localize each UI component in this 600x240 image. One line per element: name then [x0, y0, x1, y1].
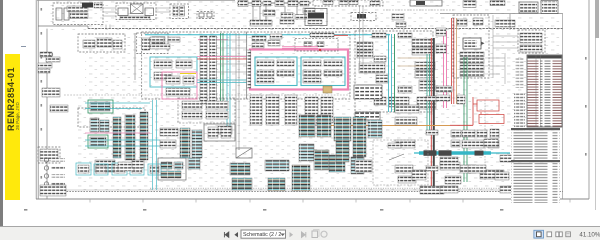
yellow wire: [180, 73, 196, 75]
fuses: [44, 158, 65, 194]
dark trunk cable: [433, 38, 435, 192]
bottom dotted line 2: [150, 187, 560, 189]
connector table small 2: [541, 1, 558, 14]
grid column numbers: [24, 209, 503, 211]
dashed box bottom right-center: [373, 140, 428, 185]
crossed box: [131, 4, 144, 14]
red box 2: [479, 115, 504, 124]
chain connector: [238, 1, 248, 7]
bottom dashed harness line: [47, 191, 563, 193]
component cluster right: [451, 140, 460, 147]
connector ladder pair: [268, 178, 285, 191]
next-page button (disabled): [290, 232, 294, 237]
indicator cluster colored: [158, 158, 186, 180]
connector ladder cascade: [317, 115, 331, 137]
small comps under bus: [150, 37, 164, 42]
chain connector: [300, 1, 309, 6]
A1 box: [355, 160, 372, 172]
short line left of bus: [38, 26, 88, 29]
red wire to ECM left: [197, 58, 250, 60]
status bar: [0, 226, 600, 240]
trunk labels: [426, 96, 438, 101]
terminal table column: [250, 95, 262, 125]
pink horizontal left cluster: [85, 132, 150, 134]
scrollbar thumb: [595, 0, 599, 38]
terminal table column: [305, 97, 318, 125]
component cluster right: [460, 165, 476, 173]
component cluster right: [457, 95, 465, 104]
connector ladder pair: [230, 163, 250, 175]
thick cyan band: [414, 150, 510, 156]
right mid small chips: [436, 86, 452, 92]
red connecting wires: [473, 104, 481, 115]
red box 1: [477, 100, 499, 111]
component cluster right: [500, 155, 514, 162]
dashed box pump: [518, 30, 545, 53]
pink wire to ECM left: [197, 56, 250, 58]
connector ladder cascade: [329, 155, 345, 172]
dashed box left-center: [78, 108, 145, 127]
small clusters top far right: [463, 1, 476, 8]
fine print noise overlay: [50, 1, 560, 30]
red wire above ECM: [322, 34, 348, 36]
barrel connector cluster: [372, 33, 386, 38]
connector ladder cascade: [314, 150, 329, 170]
refresh icon (disabled): [321, 231, 327, 237]
top harness chain: [237, 2, 311, 4]
box A clusters: [67, 6, 88, 12]
link wires between top boxes: [103, 8, 170, 16]
wire legend table: [527, 55, 562, 127]
ECM cyan box right: [301, 57, 345, 86]
green bordered box B: [88, 135, 108, 148]
dashed module box D: [197, 12, 214, 19]
first-page button: [224, 232, 228, 237]
bottom ruler line: [36, 198, 589, 200]
main ticked bus line: [88, 28, 563, 30]
component cluster right: [462, 140, 484, 148]
mid dashed container line: [64, 94, 350, 96]
component cluster right: [395, 140, 415, 148]
teal box component: [148, 164, 161, 175]
barrel connector cluster: [412, 48, 434, 55]
connector ladder bar: [90, 118, 99, 132]
component cluster right: [451, 130, 461, 137]
dashed box with blob: [351, 13, 376, 21]
tan vertical: [456, 18, 458, 104]
left vertical wire x47: [46, 29, 48, 199]
orange wire run: [330, 125, 450, 127]
right horizontal line: [440, 13, 563, 15]
teal pair near trunk: [427, 54, 430, 130]
label above ECM: [310, 33, 334, 37]
connector ladder bar: [100, 120, 109, 132]
connector ladder cascade: [351, 157, 364, 174]
pink wire top: [198, 39, 228, 41]
chain connector: [252, 1, 261, 7]
right h-wires: [493, 36, 518, 48]
component cluster right: [477, 130, 487, 137]
dark bundle cluster: [354, 85, 382, 99]
vertical wire x135: [134, 33, 136, 80]
component cluster right: [462, 130, 475, 137]
dashed box above ECM: [295, 38, 338, 51]
teal verticals left cluster: [153, 100, 157, 190]
monitor dashed box: [247, 32, 350, 99]
cluster below line right: [495, 20, 515, 27]
component cluster right: [480, 170, 504, 179]
solid box top right-center: [410, 0, 442, 6]
wires connector column to ECM: [216, 40, 247, 80]
tan component below ECM: [323, 86, 332, 93]
speaker box: [204, 124, 235, 141]
pink-bordered sub box: [162, 72, 197, 99]
terminal table column: [285, 95, 297, 125]
connector ladder cascade: [353, 117, 366, 157]
connector ladder pair: [232, 178, 252, 190]
ruler ticks: [90, 199, 570, 203]
connector ladder bar: [125, 115, 135, 160]
bottom-left cluster: [40, 185, 66, 196]
barrel connector cluster: [357, 42, 373, 50]
vertical link right: [509, 14, 511, 30]
connector ladder bar: [192, 130, 202, 158]
legend left icon column: [514, 92, 525, 140]
component cluster right: [440, 157, 458, 165]
chain drop wires: [253, 6, 297, 24]
barrel connector cluster: [357, 51, 373, 58]
connector ladder bar: [140, 112, 148, 160]
yellow sticky bookmark strip: [5, 54, 20, 200]
barrel connector cluster: [398, 33, 412, 38]
barrel connector cluster: [359, 63, 385, 73]
green bordered box A: [88, 100, 113, 113]
connector ladder cascade: [336, 140, 349, 162]
connector pin column: [200, 36, 207, 104]
connector table small 1: [519, 2, 538, 13]
dark cluster: [95, 160, 115, 172]
component cluster right: [398, 176, 416, 183]
gray vertical pair: [236, 33, 239, 150]
chain connector: [288, 1, 298, 7]
glow plug symbol: [463, 38, 485, 49]
component cluster right: [488, 140, 499, 148]
dashed module box B (flasher): [116, 3, 156, 20]
component cluster right: [395, 165, 413, 173]
tiny mark above strip: [21, 46, 26, 48]
left small cluster 2: [50, 105, 68, 112]
connector ladder cascade: [299, 144, 314, 161]
component cluster right: [468, 165, 486, 173]
dashed box ignition group: [78, 34, 125, 52]
dashed module box A (start aid): [53, 3, 103, 25]
green vertical pair: [221, 33, 224, 108]
grid row labels left: [41, 8, 43, 179]
long routing wire bottom: [62, 189, 560, 191]
green vertical pair right: [464, 57, 467, 182]
dashed line top right: [383, 9, 455, 11]
mid chain comps: [263, 10, 275, 16]
barrel connector cluster: [412, 39, 434, 47]
ECM pink thick box: [250, 50, 348, 90]
center field dashed box: [355, 31, 433, 112]
svg-text:41.10%: 41.10%: [579, 232, 600, 239]
connector ladder cascade: [368, 120, 382, 138]
window left edge bar: [0, 0, 3, 227]
page layout icons right: [534, 230, 544, 238]
left small cluster 1: [42, 88, 60, 97]
component cluster right: [440, 186, 458, 193]
cyan-bordered sub box: [150, 57, 197, 87]
battery cluster: [40, 52, 52, 57]
barrel connector cluster: [389, 97, 409, 107]
cyan feeder bus: [145, 34, 390, 36]
dashed box key switch: [137, 33, 168, 54]
ECM cyan box left: [255, 57, 297, 86]
ECM left pin column: [247, 50, 251, 88]
legend notes block: [511, 128, 560, 130]
barrel connector cluster: [357, 85, 375, 96]
box A dark blob: [82, 3, 93, 8]
red trunk vertical: [430, 38, 432, 190]
chain connector: [263, 1, 271, 6]
barrel connector cluster: [415, 62, 435, 70]
green harness vertical: [394, 34, 396, 112]
cyan harness verticals: [389, 34, 392, 112]
terminal table column: [266, 95, 279, 125]
terminal table column: [321, 97, 333, 123]
component cluster right: [484, 139, 498, 147]
right section divider: [562, 14, 564, 199]
prev-page button: [234, 232, 238, 237]
connector ladder pair: [292, 165, 310, 191]
component cluster right: [495, 172, 509, 180]
big dashed harness box left: [142, 32, 247, 99]
connector ladder pair: [188, 158, 200, 169]
box A drop wires: [60, 25, 110, 29]
starter solid box: [305, 9, 327, 26]
comps above ECM: [252, 36, 266, 41]
teal box component: [130, 164, 144, 175]
cyan horizontals left cluster: [85, 103, 160, 146]
snapshot icon (disabled): [312, 231, 318, 238]
dashed module box C (striped): [170, 4, 189, 19]
dashed fuse panel box: [38, 147, 60, 163]
injector dashed box: [453, 15, 489, 78]
component cluster right: [490, 129, 499, 138]
scrollbar track line: [595, 0, 596, 210]
teal box component: [112, 163, 127, 175]
component cluster right: [395, 105, 419, 113]
connector ladder bar: [113, 117, 121, 158]
pink vertical harness pair: [444, 31, 447, 108]
connector ladder cascade: [334, 117, 351, 141]
component cluster right: [440, 162, 460, 170]
schematic page right border: [588, 0, 590, 199]
red vertical pair: [452, 18, 454, 104]
page combo box: [241, 230, 286, 238]
dashed vertical mid-right: [484, 100, 486, 180]
red feed to boxes: [450, 97, 473, 125]
teal vertical pair: [227, 33, 230, 130]
barrel connector cluster: [419, 80, 435, 91]
teal box component: [94, 164, 108, 175]
dashed box mid connector group: [178, 98, 235, 123]
teal box component: [76, 163, 91, 175]
tan wires center field: [398, 58, 433, 66]
connector ladder cascade: [299, 115, 315, 137]
last-page button (disabled): [302, 232, 306, 237]
cyan wires to ECM left: [197, 80, 247, 83]
schematic page left border: [36, 0, 38, 199]
component cluster right: [445, 176, 461, 184]
top edge cut line: [37, 0, 235, 2]
component cluster right: [420, 186, 444, 194]
barrel connector cluster: [415, 71, 433, 78]
verticals from top box: [360, 6, 364, 70]
connector ladder pair: [265, 160, 289, 171]
box A relay rects: [56, 8, 62, 20]
barrel connector cluster: [417, 97, 436, 109]
component cluster right: [395, 117, 417, 125]
connector ladder bar: [180, 128, 190, 158]
pink wires above ECM: [282, 47, 318, 49]
svg-text:Schematic (2 / 2: Schematic (2 / 2: [243, 232, 281, 238]
chain connector: [275, 1, 284, 7]
meter box with diagonal: [236, 148, 252, 158]
component cluster right: [500, 186, 514, 193]
barrel connector cluster: [376, 75, 388, 83]
wide dashed box top: [313, 0, 383, 6]
grid row labels right: [585, 57, 587, 156]
